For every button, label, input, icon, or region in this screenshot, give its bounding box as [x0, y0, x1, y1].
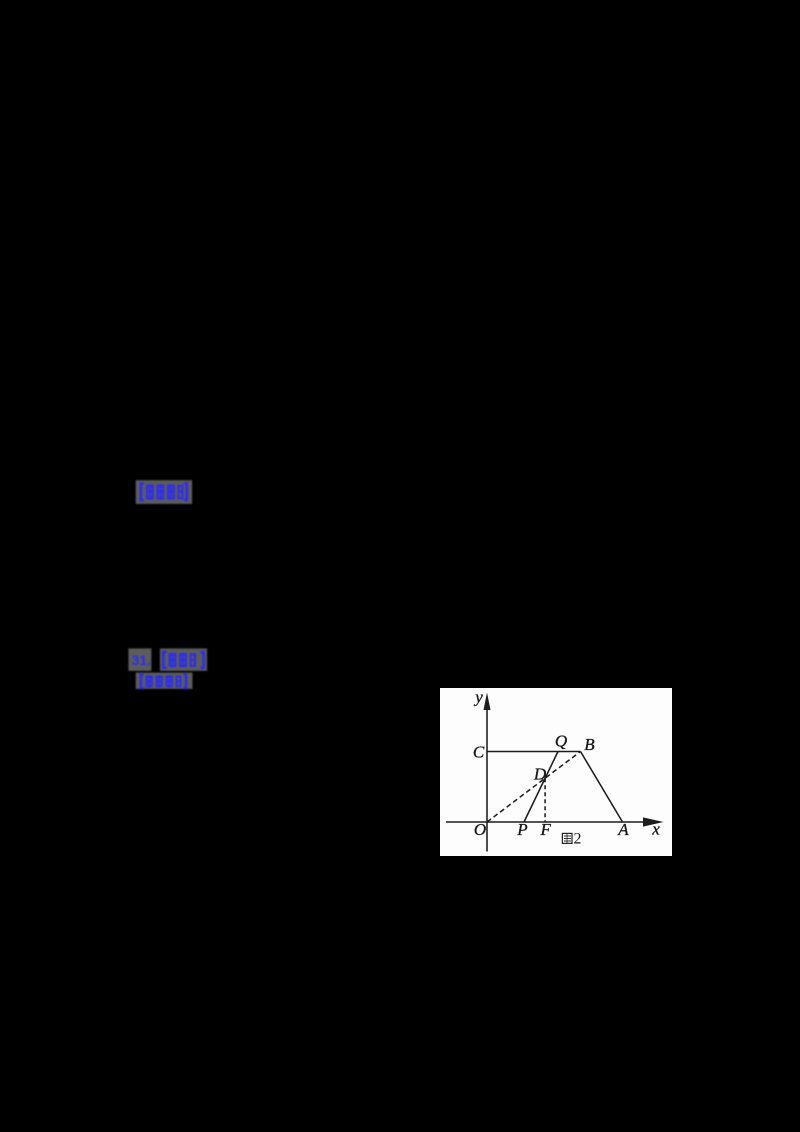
svg-text:C: C [473, 742, 485, 761]
svg-text:31.: 31. [132, 652, 151, 668]
svg-text:x: x [651, 819, 660, 838]
svg-text:O: O [474, 820, 486, 839]
svg-text:F: F [540, 820, 552, 839]
svg-text:y: y [473, 688, 483, 707]
svg-text:B: B [584, 735, 595, 754]
svg-text:2: 2 [574, 830, 582, 847]
svg-text:A: A [617, 820, 629, 839]
svg-text:D: D [533, 764, 547, 783]
svg-text:P: P [516, 820, 527, 839]
svg-text:Q: Q [555, 731, 567, 750]
